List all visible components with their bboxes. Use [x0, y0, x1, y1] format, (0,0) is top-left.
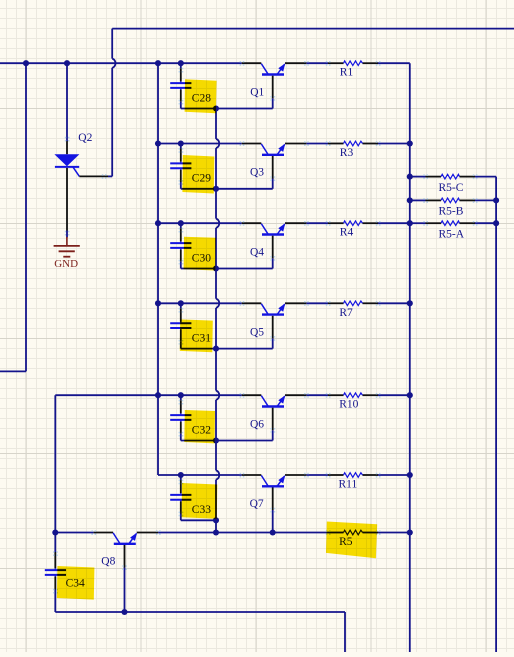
wire row rail R7 [158, 302, 242, 304]
wire bottom rail [55, 611, 345, 613]
wire right bus [409, 63, 411, 652]
wire row rail R3 [158, 143, 242, 145]
wire Q2 cathode [66, 231, 68, 238]
capacitor C31 [170, 303, 191, 348]
wire base row5 [181, 440, 273, 442]
svg-text:R7: R7 [339, 307, 353, 319]
resistor R11 [326, 473, 381, 478]
thyristor Q2 [54, 137, 112, 236]
capacitor C29 [170, 144, 191, 189]
wire Q7 base drop [272, 510, 274, 533]
capacitor C28 [170, 63, 191, 108]
svg-text:Q6: Q6 [250, 418, 264, 430]
wire row1 rail [0, 62, 242, 64]
transistor Q6 [240, 393, 309, 433]
svg-text:R5-B: R5-B [439, 205, 464, 217]
node row1 junctions [23, 60, 29, 66]
resistor R3 [326, 141, 381, 146]
wire base row3 [181, 268, 273, 270]
svg-text:GND: GND [54, 258, 78, 270]
svg-text:R1: R1 [340, 67, 354, 79]
wire Q8 base drop [124, 568, 126, 613]
wire base bus [215, 109, 217, 139]
wire Q2 anode [66, 63, 68, 141]
wire base row4 [181, 348, 273, 350]
svg-text:Q8: Q8 [101, 556, 115, 568]
wire far-right column [495, 177, 497, 652]
resistor R1 [326, 61, 381, 66]
highlight C30 [184, 237, 216, 271]
wire row rail R10 [158, 394, 242, 396]
wire left drop [25, 63, 27, 371]
resistor R4 [326, 221, 381, 226]
wire top-rail drop with hop [111, 29, 113, 59]
resistor R10 [326, 393, 381, 398]
svg-text:R11: R11 [339, 479, 358, 491]
wire row rail R11 [158, 474, 242, 476]
wire base row2 [181, 188, 273, 190]
wire Q8/R5 row [55, 532, 93, 534]
svg-text:Q1: Q1 [250, 86, 264, 98]
resistor R5 [326, 530, 381, 535]
svg-text:Q2: Q2 [78, 132, 92, 144]
highlight C32 [184, 410, 215, 443]
transistor Q3 [240, 141, 309, 181]
svg-text:R10: R10 [339, 399, 358, 411]
svg-text:R5-C: R5-C [439, 182, 464, 194]
svg-text:R5-A: R5-A [439, 228, 465, 240]
svg-text:Q3: Q3 [250, 167, 264, 179]
svg-text:Q5: Q5 [250, 327, 264, 339]
wire base row1 [181, 108, 273, 110]
transistor Q8 [91, 530, 160, 570]
svg-text:Q7: Q7 [250, 498, 264, 510]
highlight C31 [180, 319, 213, 352]
resistor R5-A [423, 221, 477, 226]
wire column A [157, 63, 159, 475]
wire row rail R4 [158, 222, 242, 224]
highlight R5 [326, 522, 377, 559]
svg-text:Q4: Q4 [250, 246, 264, 258]
resistor R7 [326, 301, 381, 306]
transistor Q1 [240, 61, 309, 101]
resistor R5-B [423, 198, 477, 203]
capacitor C30 [170, 223, 191, 268]
transistor Q4 [240, 221, 309, 261]
resistor R5-C [423, 174, 477, 179]
wire C33 bottom [181, 519, 216, 521]
highlight C29 [182, 155, 214, 194]
capacitor C32 [170, 395, 191, 440]
ground [54, 237, 80, 270]
wire row3 extension (R5-A row) [410, 222, 426, 224]
highlight C28 [185, 79, 217, 113]
wire R5-B row [410, 199, 426, 201]
capacitor C34 [45, 533, 66, 613]
wire row5 left branch [55, 394, 158, 396]
svg-text:R4: R4 [340, 227, 354, 239]
wire R5-C row [410, 176, 426, 178]
wire top rail [112, 28, 514, 30]
capacitor C33 [170, 475, 191, 520]
transistor Q7 [240, 473, 309, 513]
svg-text:R3: R3 [340, 147, 354, 159]
transistor Q5 [240, 301, 309, 341]
highlight C34 [57, 566, 95, 600]
highlight C33 [182, 483, 218, 519]
